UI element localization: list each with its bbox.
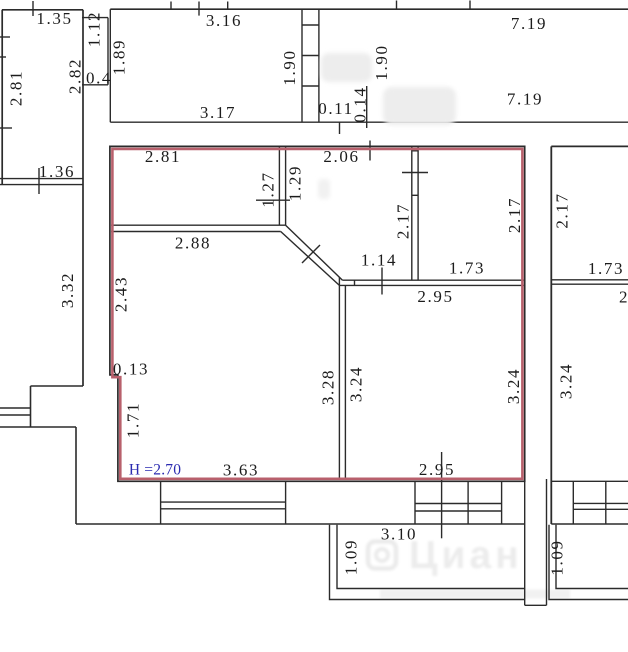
window vertical x468.1 xyxy=(467,481,469,524)
svg-text:2.17: 2.17 xyxy=(553,192,572,228)
blur patch P3 xyxy=(318,179,330,199)
wire step at y386 xyxy=(31,385,84,387)
right building top wall xyxy=(551,145,628,147)
tick for 1.36 at x39 xyxy=(38,168,40,194)
interior wall B horizontal double (2.88) xyxy=(111,224,286,226)
svg-text:1.35: 1.35 xyxy=(36,9,72,28)
svg-text:2.43: 2.43 xyxy=(112,276,131,312)
interior wall E vertical double (2.17) xyxy=(411,146,413,280)
wall bottom of top-left room (double line) 1.36 xyxy=(0,178,84,180)
tick across diagonal xyxy=(302,245,320,263)
balcony left outer xyxy=(330,525,525,600)
window glass right pair xyxy=(415,503,502,505)
svg-text:7.19: 7.19 xyxy=(507,90,543,109)
svg-text:0.13: 0.13 xyxy=(113,360,149,379)
right building bottom wall xyxy=(551,523,628,525)
wire corridor bottom wall y122 xyxy=(110,121,628,123)
tick for 2.17 on wall E xyxy=(402,172,428,174)
tick for 1.14 at x382 xyxy=(381,268,383,295)
tick crossing top wall x199 xyxy=(198,2,200,16)
tick for 0.14 at x366.7 xyxy=(366,86,368,128)
tick below y122 at x339.5 xyxy=(339,122,341,134)
tick above top wall x470 xyxy=(469,1,471,10)
interior wall C bottom horizontal double (2.95) xyxy=(343,279,525,281)
right building left wall xyxy=(550,146,552,524)
rung on wall E top xyxy=(412,150,418,152)
shaft ladder rung 1 xyxy=(302,24,319,26)
tick on left wall y128 xyxy=(0,127,12,129)
shaft box 1.12 x 0.4 xyxy=(82,17,108,19)
svg-text:Циан: Циан xyxy=(409,534,523,577)
svg-text:3.63: 3.63 xyxy=(223,461,259,480)
svg-text:0.4: 0.4 xyxy=(86,69,112,88)
svg-text:1.09: 1.09 xyxy=(548,539,567,575)
svg-text:2.95: 2.95 xyxy=(419,460,455,479)
shaft ladder right line xyxy=(318,9,320,122)
tick for 2.06 on red top at x370 xyxy=(369,141,371,161)
svg-text:3.16: 3.16 xyxy=(206,11,242,30)
svg-text:2.17: 2.17 xyxy=(394,203,413,239)
svg-text:2.06: 2.06 xyxy=(323,147,359,166)
watermark cian logo xyxy=(368,534,570,599)
interior wall A vertical double (1.27/1.29) xyxy=(278,146,280,225)
svg-text:1.90: 1.90 xyxy=(280,49,299,85)
blur patch P1 xyxy=(321,53,372,82)
svg-text:2.88: 2.88 xyxy=(175,234,211,253)
wire top outer wall left segment xyxy=(2,9,83,11)
svg-text:1.29: 1.29 xyxy=(286,165,305,201)
svg-text:2.81: 2.81 xyxy=(145,147,181,166)
apartment black outline xyxy=(110,146,525,481)
tick on left wall y37 xyxy=(0,36,10,38)
svg-text:3.10: 3.10 xyxy=(381,525,417,544)
shaft ladder left line xyxy=(301,9,303,122)
svg-text:2.95: 2.95 xyxy=(619,288,628,307)
wire top outer wall right segment xyxy=(110,8,628,10)
svg-text:H =2.70: H =2.70 xyxy=(129,462,181,479)
svg-text:7.19: 7.19 xyxy=(511,14,547,33)
svg-text:3.28: 3.28 xyxy=(319,369,338,405)
wire left outer wall of top-left room xyxy=(1,10,3,185)
balcony right inner xyxy=(556,525,628,589)
svg-text:2.17: 2.17 xyxy=(505,197,524,233)
svg-text:2.95: 2.95 xyxy=(417,287,453,306)
svg-text:1.27: 1.27 xyxy=(259,171,278,207)
svg-text:1.73: 1.73 xyxy=(449,259,485,278)
tick for 1.27/1.29 xyxy=(256,199,290,201)
svg-text:3.24: 3.24 xyxy=(504,368,523,404)
window glass left pair xyxy=(161,501,286,503)
tick on top wall at x33 xyxy=(32,1,34,16)
svg-text:2.81: 2.81 xyxy=(7,70,26,106)
svg-text:3.17: 3.17 xyxy=(200,103,236,122)
right window vertical x573.3 xyxy=(572,481,574,524)
svg-text:3.24: 3.24 xyxy=(347,366,366,402)
window vertical x285.6 xyxy=(285,481,287,524)
svg-text:1.36: 1.36 xyxy=(39,162,75,181)
wire long left wall x83 xyxy=(82,10,84,386)
svg-text:1.14: 1.14 xyxy=(361,251,397,270)
svg-text:3.32: 3.32 xyxy=(58,272,77,308)
svg-text:1.71: 1.71 xyxy=(124,402,143,438)
tick on left wall y57 xyxy=(0,56,6,58)
tick above top wall x396.5 xyxy=(396,1,398,10)
long tick for 2.95/3.10 at x441.6 xyxy=(441,452,443,538)
tick above top wall x171 xyxy=(170,2,172,10)
window double line on left lower wall xyxy=(0,407,31,409)
apartment red outline xyxy=(112,149,522,479)
interior divider wall D vertical double (3.28/3.24) xyxy=(338,277,340,479)
balcony right outer xyxy=(549,525,628,600)
rung on wall C xyxy=(354,280,356,285)
svg-text:1.12: 1.12 xyxy=(85,11,104,47)
right window glass pair xyxy=(573,502,628,504)
window vertical x415 xyxy=(414,481,416,524)
shaft ladder rung 2 xyxy=(302,55,319,57)
window vertical x501.6 xyxy=(501,481,503,524)
wire left wall of 3.16 room xyxy=(109,9,111,122)
wire building bottom wall xyxy=(76,523,525,525)
svg-text:1.09: 1.09 xyxy=(342,539,361,575)
diagonal wall double xyxy=(286,225,343,280)
wire left lower wall x30.5 xyxy=(30,386,32,427)
right building lower wall top line xyxy=(551,480,628,482)
svg-text:3.24: 3.24 xyxy=(557,363,576,399)
svg-text:1.90: 1.90 xyxy=(372,44,391,80)
svg-text:1.73: 1.73 xyxy=(588,259,624,278)
shaft ladder rung 3 xyxy=(302,85,319,87)
right building middle wall double xyxy=(551,279,628,281)
rung on wall E at y195 xyxy=(412,194,418,196)
right window vertical x605.8 xyxy=(605,481,607,524)
wire lower-left wall x76 xyxy=(75,427,77,524)
wire lower-left wall y427 xyxy=(0,426,76,428)
svg-text:1.89: 1.89 xyxy=(110,39,129,75)
svg-text:0.11: 0.11 xyxy=(318,99,354,118)
tick above top wall x227.7 xyxy=(227,2,229,10)
pillar between balconies xyxy=(524,481,526,605)
blur patch P2 xyxy=(383,87,456,125)
balcony left inner xyxy=(337,525,525,589)
svg-text:0.14: 0.14 xyxy=(351,86,370,122)
svg-text:2.82: 2.82 xyxy=(66,58,85,94)
window vertical x160.6 xyxy=(160,481,162,524)
